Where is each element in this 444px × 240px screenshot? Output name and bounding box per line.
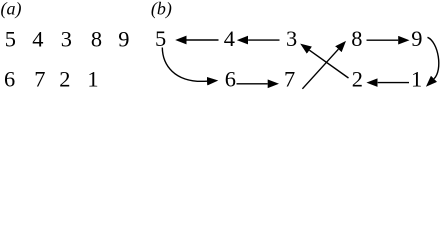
svg-text:4: 4 bbox=[224, 26, 235, 51]
svg-text:9: 9 bbox=[118, 27, 129, 52]
svg-text:9: 9 bbox=[411, 26, 422, 51]
svg-text:7: 7 bbox=[284, 66, 295, 91]
svg-text:5: 5 bbox=[5, 27, 16, 52]
svg-text:7: 7 bbox=[34, 67, 45, 92]
svg-text:3: 3 bbox=[286, 26, 297, 51]
svg-text:4: 4 bbox=[32, 27, 43, 52]
svg-text:3: 3 bbox=[61, 27, 72, 52]
svg-text:1: 1 bbox=[411, 66, 422, 91]
svg-text:8: 8 bbox=[91, 27, 102, 52]
svg-text:(a): (a) bbox=[1, 0, 22, 20]
svg-text:2: 2 bbox=[59, 67, 70, 92]
svg-text:2: 2 bbox=[352, 66, 363, 91]
svg-text:8: 8 bbox=[351, 26, 362, 51]
svg-text:6: 6 bbox=[4, 67, 15, 92]
svg-text:6: 6 bbox=[225, 66, 236, 91]
svg-text:5: 5 bbox=[155, 26, 166, 51]
svg-text:1: 1 bbox=[87, 67, 98, 92]
svg-text:(b): (b) bbox=[151, 0, 172, 20]
